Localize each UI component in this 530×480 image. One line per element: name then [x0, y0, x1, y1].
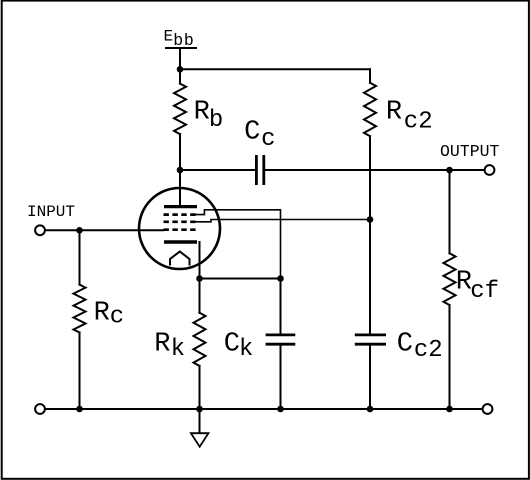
svg-text:k: k	[171, 336, 185, 363]
svg-text:b: b	[209, 107, 223, 134]
svg-text:INPUT: INPUT	[27, 203, 75, 221]
svg-text:c: c	[261, 126, 275, 153]
svg-text:R: R	[154, 330, 170, 360]
svg-text:R: R	[194, 98, 210, 128]
svg-text:cf: cf	[470, 278, 499, 305]
svg-text:bb: bb	[173, 31, 194, 50]
svg-text:R: R	[94, 299, 110, 329]
svg-text:E: E	[164, 28, 174, 46]
svg-text:OUTPUT: OUTPUT	[440, 142, 500, 161]
svg-text:C: C	[224, 330, 240, 360]
svg-text:R: R	[386, 98, 402, 128]
svg-text:c: c	[110, 303, 124, 330]
svg-text:C: C	[397, 330, 413, 360]
svg-text:C: C	[244, 118, 260, 148]
svg-text:k: k	[239, 336, 253, 363]
svg-text:c2: c2	[414, 337, 443, 364]
svg-text:c2: c2	[404, 108, 433, 135]
